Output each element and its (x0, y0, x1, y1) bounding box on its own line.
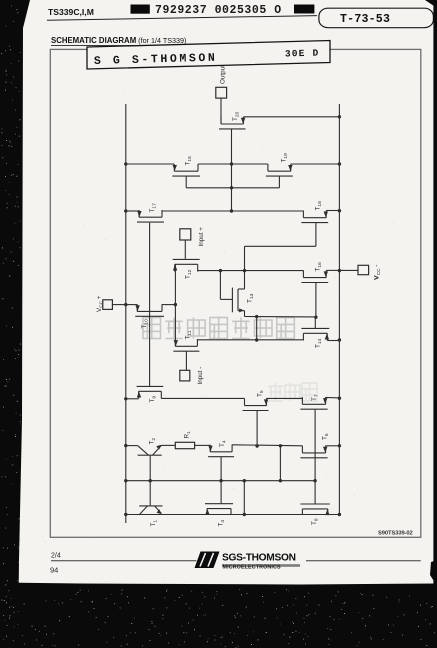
svg-text:Output: Output (220, 65, 227, 84)
svg-text:TS339C,I,M: TS339C,I,M (48, 7, 94, 17)
svg-text:SCHEMATIC DIAGRAM (for 1/4 TS3: SCHEMATIC DIAGRAM (for 1/4 TS339) (51, 36, 186, 45)
svg-text:SGS-THOMSON: SGS-THOMSON (222, 553, 296, 564)
svg-text:Input -: Input - (197, 367, 204, 385)
svg-text:Input +: Input + (198, 227, 205, 247)
svg-text:94: 94 (50, 566, 58, 575)
svg-text:7929237 0025305 O: 7929237 0025305 O (155, 4, 282, 17)
svg-text:T-73-53: T-73-53 (340, 13, 390, 26)
svg-text:S90TS339-02: S90TS339-02 (378, 531, 413, 537)
svg-text:30E D: 30E D (285, 48, 320, 60)
svg-text:2/4: 2/4 (51, 553, 61, 560)
